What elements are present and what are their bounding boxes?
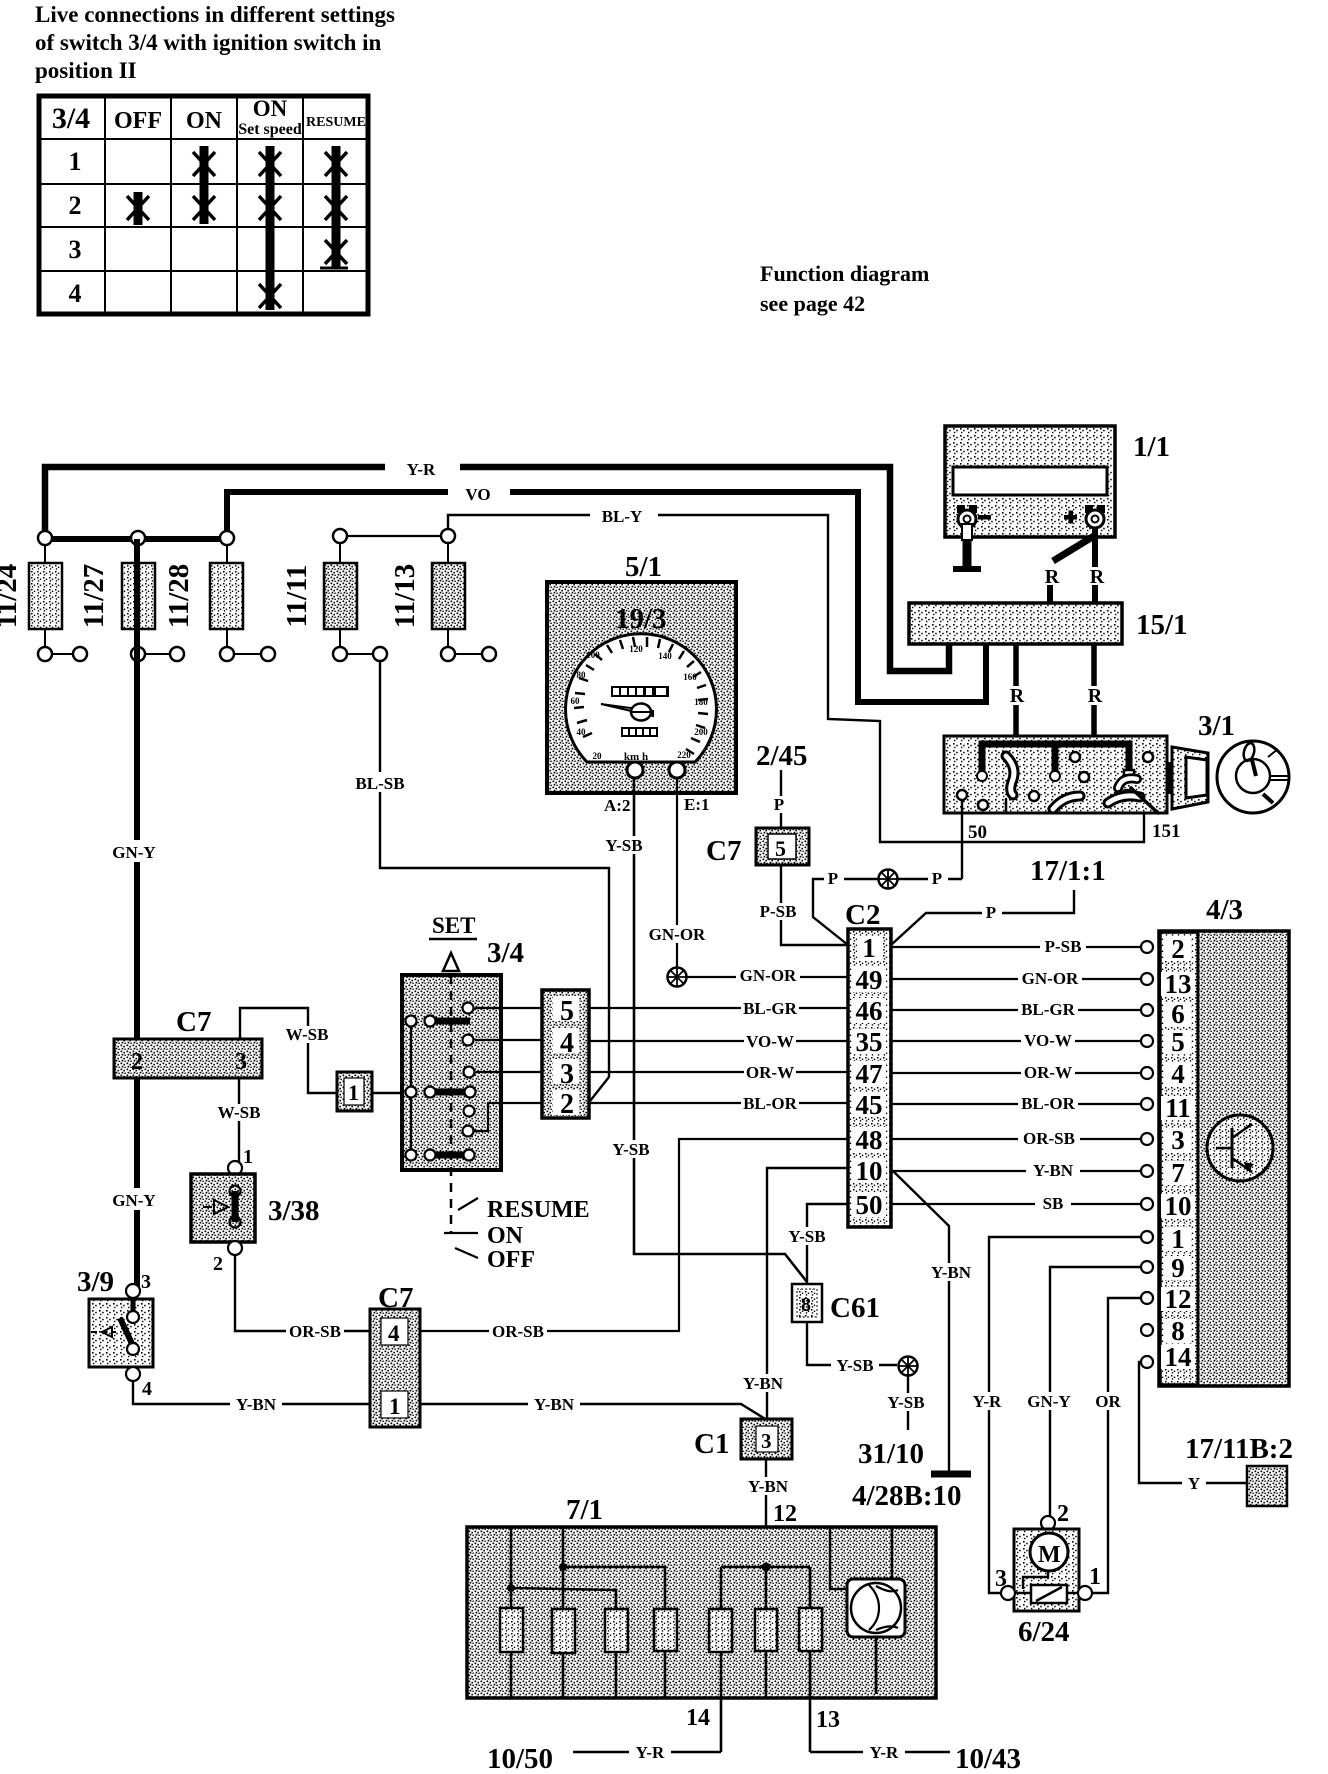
label Y — [1182, 1474, 1206, 1493]
svg-text:W-SB: W-SB — [286, 1025, 329, 1044]
fuse 11/13 — [389, 529, 496, 661]
wire battery plus to 15/1 right — [1092, 528, 1098, 603]
svg-text:11/24: 11/24 — [0, 564, 23, 628]
svg-text:2: 2 — [1171, 934, 1185, 964]
speedometer 19/3 dial — [566, 634, 717, 763]
label W-SB lower — [214, 1103, 264, 1122]
wire Y-SB from A:2 — [634, 778, 807, 1282]
svg-text:10: 10 — [1165, 1191, 1192, 1221]
svg-text:C7: C7 — [706, 835, 741, 867]
label GN-OR vertical wire — [646, 925, 708, 944]
svg-text:OR-SB: OR-SB — [289, 1322, 341, 1341]
svg-text:see page 42: see page 42 — [760, 291, 865, 316]
svg-text:1/1: 1/1 — [1133, 431, 1170, 463]
svg-text:SET: SET — [432, 913, 475, 938]
svg-text:E:1: E:1 — [684, 795, 710, 814]
label Y-BN left — [230, 1395, 282, 1414]
svg-text:Y-SB: Y-SB — [887, 1393, 924, 1412]
svg-text:OR-W: OR-W — [746, 1063, 794, 1082]
switch position table — [39, 96, 368, 314]
ignition switch 3/1 block — [944, 736, 1167, 813]
wire BL-GR row — [589, 1007, 848, 1009]
label R (left lower) — [1005, 685, 1029, 707]
svg-text:A:2: A:2 — [604, 796, 630, 815]
svg-text:BL-OR: BL-OR — [1021, 1094, 1076, 1113]
svg-text:3/4: 3/4 — [52, 102, 90, 135]
wire 14 out — [720, 1698, 723, 1752]
svg-text:C7: C7 — [176, 1006, 211, 1038]
svg-text:OR: OR — [1095, 1392, 1121, 1411]
key barrel 3/1 — [1167, 747, 1208, 809]
fuse box 15/1 — [909, 603, 1188, 644]
svg-text:C61: C61 — [830, 1292, 880, 1324]
battery plus terminal — [1064, 505, 1105, 528]
svg-text:48: 48 — [856, 1125, 883, 1155]
svg-text:4: 4 — [142, 1378, 152, 1400]
speedometer unit 5/1 — [547, 551, 736, 793]
wire Y-BN diagonal to ground — [893, 1171, 949, 1471]
svg-text:Y-SB: Y-SB — [612, 1140, 649, 1159]
svg-text:180: 180 — [694, 697, 708, 707]
svg-text:SB: SB — [1043, 1194, 1064, 1213]
connector 1 (inline) — [337, 1072, 372, 1111]
svg-text:GN-OR: GN-OR — [740, 966, 797, 985]
svg-text:2: 2 — [69, 191, 82, 220]
battery 1/1 — [945, 426, 1170, 537]
label W-SB upper — [282, 1025, 332, 1044]
svg-text:Y-BN: Y-BN — [748, 1477, 789, 1496]
ground battery — [953, 524, 981, 569]
svg-text:151: 151 — [1152, 821, 1181, 842]
svg-text:60: 60 — [571, 696, 581, 706]
svg-text:position II: position II — [35, 58, 137, 83]
transistor in 4/3 — [1207, 1115, 1273, 1181]
svg-text:GN-Y: GN-Y — [112, 1191, 155, 1210]
labels RESUME ON OFF — [444, 1197, 590, 1273]
svg-text:50: 50 — [856, 1190, 883, 1220]
wire P from 17/1:1 to C2 pin 1 — [891, 890, 1074, 945]
label P right — [928, 869, 948, 888]
svg-text:Y-R: Y-R — [407, 460, 436, 479]
label GN-OR horizontal — [736, 966, 800, 985]
svg-text:RESUME: RESUME — [306, 115, 366, 130]
svg-text:R: R — [1090, 566, 1105, 588]
fuse 11/24 — [0, 531, 87, 661]
ignition contacts — [957, 752, 1153, 810]
label GN-Y (6/24) — [1022, 1392, 1076, 1411]
label Y-BN (below C1) — [742, 1477, 794, 1496]
label P-SB — [755, 902, 801, 921]
wire to switch 3/4 — [372, 1092, 411, 1094]
svg-text:160: 160 — [683, 672, 697, 682]
diode unit 3/38 — [191, 1146, 320, 1275]
terminal E:1 — [669, 762, 685, 778]
svg-text:50: 50 — [968, 822, 987, 843]
connector 17/11B:2 — [1185, 1433, 1293, 1506]
wire BL-SB — [380, 661, 609, 1101]
svg-text:3: 3 — [560, 1059, 574, 1090]
svg-text:M: M — [1038, 1542, 1061, 1568]
wire 50 to BL-Y node — [961, 800, 963, 879]
label OR (6/24) — [1091, 1392, 1125, 1411]
svg-text:OR-W: OR-W — [1024, 1063, 1072, 1082]
row labels P-SB..SB — [1018, 937, 1086, 1213]
svg-text:P: P — [932, 869, 942, 888]
odometer lower — [621, 727, 658, 737]
wire OR-SB from 3/38 to C7 pin 4 — [235, 1255, 370, 1331]
wire 4/3 pin1 to Y-R — [989, 1237, 1140, 1593]
svg-text:140: 140 — [658, 651, 672, 661]
wire pin5 row — [475, 1007, 542, 1009]
wire 4/3 pin12 to OR — [1092, 1298, 1140, 1593]
title text — [35, 2, 395, 83]
7/1 resistors — [500, 1608, 822, 1653]
svg-text:1: 1 — [243, 1146, 253, 1168]
wires C2 to 4/3 rows — [891, 947, 1141, 1204]
svg-text:11/28: 11/28 — [163, 564, 195, 628]
wire R to ignition left — [1013, 644, 1019, 737]
svg-text:1: 1 — [69, 147, 82, 176]
svg-text:100: 100 — [586, 650, 600, 660]
svg-text:BL-OR: BL-OR — [743, 1094, 798, 1113]
wire Y-R to 10/43 — [810, 1751, 950, 1754]
svg-text:Set speed: Set speed — [238, 121, 302, 138]
svg-text:1: 1 — [348, 1080, 359, 1105]
label P left — [824, 869, 844, 888]
connector C2 — [845, 899, 891, 1227]
wire 13 out — [809, 1698, 812, 1752]
svg-text:80: 80 — [577, 670, 587, 680]
svg-text:1: 1 — [862, 933, 876, 963]
svg-text:VO: VO — [465, 485, 490, 504]
wire OR-SB from C7-4 to C2-48 — [420, 1139, 848, 1331]
wire Y-BN from C1 to 7/1 pin 12 — [765, 1459, 767, 1567]
svg-text:3: 3 — [69, 235, 82, 264]
label Y-SB upper — [600, 836, 648, 855]
svg-text:OR-SB: OR-SB — [492, 1322, 544, 1341]
svg-text:7/1: 7/1 — [566, 1494, 603, 1526]
svg-text:14: 14 — [686, 1705, 710, 1731]
label Y-R — [385, 455, 460, 479]
svg-text:Y: Y — [1188, 1474, 1200, 1493]
wire Y-BN from C2 pin 10 to C1 — [767, 1168, 848, 1420]
wire GN-OR to C2 pin 49 — [687, 976, 848, 978]
wire pin4 row — [475, 1039, 542, 1041]
wire Y-R top bus — [45, 467, 949, 671]
svg-text:Y-R: Y-R — [870, 1743, 899, 1762]
lamp GN-OR — [668, 968, 687, 987]
label Y-BN right — [528, 1395, 580, 1414]
connector C1 — [694, 1419, 792, 1460]
svg-text:10: 10 — [856, 1156, 883, 1186]
control unit 7/1 — [467, 1494, 936, 1698]
wire P-SB to C2 pin 1 — [781, 865, 848, 945]
svg-text:2: 2 — [213, 1253, 223, 1275]
svg-text:ON: ON — [487, 1223, 524, 1249]
svg-text:P-SB: P-SB — [1045, 937, 1082, 956]
svg-text:5: 5 — [1171, 1027, 1185, 1057]
connector C7 pin 5 — [706, 828, 809, 867]
4/3 pin numbers — [1161, 937, 1195, 1369]
label Y-BN (C1 wire) — [737, 1374, 789, 1393]
battery minus terminal — [957, 505, 991, 528]
wire 4/3 pin14 to 17/11B:2 — [1139, 1362, 1247, 1483]
control unit 4/3 — [1159, 894, 1289, 1386]
svg-text:11/11: 11/11 — [281, 565, 313, 628]
svg-text:46: 46 — [856, 996, 883, 1026]
svg-text:W-SB: W-SB — [218, 1103, 261, 1122]
wire BL-Y — [448, 515, 1144, 842]
svg-text:R: R — [1010, 685, 1025, 707]
wire Y-SB from C2 pin 50 — [807, 1204, 848, 1284]
svg-text:3/9: 3/9 — [77, 1266, 114, 1298]
svg-text:Y-R: Y-R — [636, 1743, 665, 1762]
svg-text:120: 120 — [629, 644, 643, 654]
svg-text:1: 1 — [1171, 1224, 1185, 1254]
label Y-SB (below C61) — [831, 1356, 879, 1375]
key head — [1217, 741, 1289, 813]
svg-text:4: 4 — [69, 279, 82, 308]
wire fuse top bus — [45, 536, 227, 542]
svg-text:3/4: 3/4 — [487, 937, 524, 969]
lamp P — [879, 870, 898, 889]
wire R left stub — [1047, 584, 1053, 603]
label Y-BN (ground wire) — [925, 1263, 977, 1282]
svg-text:3/1: 3/1 — [1198, 710, 1235, 742]
wire W-SB to 3/38 — [238, 1078, 240, 1164]
svg-text:C1: C1 — [694, 1428, 729, 1460]
terminal A:2 — [627, 762, 643, 778]
svg-text:OR-SB: OR-SB — [1023, 1129, 1075, 1148]
label OR-SB right — [489, 1322, 547, 1341]
svg-text:2: 2 — [131, 1049, 143, 1075]
wire Y-SB to 31/10 — [907, 1376, 909, 1430]
svg-text:Y-R: Y-R — [973, 1392, 1002, 1411]
svg-text:11: 11 — [1165, 1093, 1191, 1123]
svg-text:Y-BN: Y-BN — [534, 1395, 575, 1414]
label GN-Y lower — [108, 1188, 160, 1210]
switch 3/4 contacts — [406, 1003, 476, 1161]
svg-text:20: 20 — [593, 751, 603, 761]
svg-text:13: 13 — [1165, 969, 1192, 999]
label BL-Y — [590, 504, 658, 526]
svg-text:47: 47 — [856, 1059, 883, 1089]
svg-text:3: 3 — [995, 1566, 1007, 1592]
wire battery plus diagonal cable — [1053, 536, 1094, 561]
label Y-SB mid — [607, 1140, 655, 1159]
svg-text:4/3: 4/3 — [1206, 894, 1243, 926]
label VO — [448, 480, 510, 504]
svg-text:GN-OR: GN-OR — [649, 925, 706, 944]
svg-text:12: 12 — [1165, 1284, 1192, 1314]
svg-text:49: 49 — [856, 965, 883, 995]
svg-text:2: 2 — [1057, 1501, 1069, 1527]
svg-text:1: 1 — [1089, 1564, 1101, 1590]
svg-text:9: 9 — [1171, 1253, 1185, 1283]
svg-text:3: 3 — [141, 1271, 151, 1293]
svg-text:ON: ON — [253, 96, 288, 121]
wire pin2 step inside 3/4 — [474, 1103, 542, 1131]
svg-text:6: 6 — [1171, 999, 1185, 1029]
ignition contact traces — [1006, 756, 1158, 813]
svg-text:C2: C2 — [845, 899, 880, 931]
svg-text:1: 1 — [389, 1394, 401, 1419]
svg-text:12: 12 — [773, 1501, 797, 1527]
fuse 11/11 — [281, 529, 387, 661]
7/1 lamp — [847, 1579, 905, 1637]
wire pin3 row — [476, 1071, 542, 1073]
wire VO-W row — [589, 1040, 848, 1042]
svg-text:P-SB: P-SB — [760, 902, 797, 921]
svg-text:3/38: 3/38 — [268, 1195, 320, 1227]
servo motor 6/24 — [995, 1501, 1101, 1648]
svg-text:13: 13 — [816, 1707, 840, 1733]
needle — [601, 704, 653, 716]
wire OR-W row — [589, 1071, 848, 1073]
svg-text:BL-SB: BL-SB — [355, 774, 404, 793]
wire Y-R to 10/50 — [573, 1751, 721, 1754]
svg-text:5/1: 5/1 — [625, 551, 662, 583]
svg-text:5: 5 — [775, 836, 786, 861]
connector C7 pins 2,3 — [114, 1006, 262, 1078]
svg-text:4/28B:10: 4/28B:10 — [852, 1480, 962, 1512]
svg-text:10/43: 10/43 — [955, 1743, 1021, 1774]
svg-text:GN-Y: GN-Y — [112, 843, 155, 862]
svg-text:Y-SB: Y-SB — [605, 836, 642, 855]
wire GN-Y trunk — [134, 539, 140, 1288]
svg-text:2: 2 — [560, 1089, 574, 1120]
svg-text:ON: ON — [186, 108, 223, 134]
label Y-R (6/24) — [966, 1392, 1008, 1411]
ground 4/28B:10 — [931, 1471, 971, 1478]
svg-text:10/50: 10/50 — [487, 1743, 553, 1774]
svg-text:2/45: 2/45 — [756, 740, 808, 772]
svg-text:R: R — [1088, 685, 1103, 707]
svg-text:RESUME: RESUME — [487, 1197, 590, 1223]
switch 3/4 — [402, 913, 524, 1232]
svg-text:Y-BN: Y-BN — [236, 1395, 277, 1414]
wire P lamp row — [813, 879, 962, 945]
svg-text:OFF: OFF — [487, 1247, 535, 1273]
7/1 internal wires — [511, 1527, 892, 1698]
svg-text:15/1: 15/1 — [1136, 609, 1188, 641]
label GN-Y upper — [108, 840, 160, 862]
svg-text:35: 35 — [856, 1027, 883, 1057]
svg-text:11/27: 11/27 — [78, 564, 110, 628]
svg-text:Y-BN: Y-BN — [931, 1263, 972, 1282]
wire 4/3 pin9 to GN-Y — [1050, 1267, 1140, 1516]
svg-text:P: P — [986, 903, 996, 922]
svg-text:VO-W: VO-W — [1024, 1031, 1072, 1050]
svg-text:220: 220 — [677, 750, 691, 760]
svg-text:14: 14 — [1165, 1342, 1192, 1372]
svg-text:Y-SB: Y-SB — [788, 1227, 825, 1246]
svg-text:GN-OR: GN-OR — [1022, 969, 1079, 988]
svg-text:4: 4 — [1171, 1059, 1185, 1089]
fuse 11/28 — [163, 531, 275, 661]
svg-text:17/1:1: 17/1:1 — [1030, 855, 1106, 887]
wire Y-SB below C61 — [807, 1322, 897, 1365]
wire W-SB upper loop — [240, 1008, 337, 1093]
svg-text:6/24: 6/24 — [1018, 1616, 1070, 1648]
fuse 11/27 — [78, 531, 184, 661]
label Y-SB (pin50) — [783, 1227, 831, 1246]
wire R to ignition right — [1091, 644, 1097, 737]
wire Y-BN from 3/9 — [133, 1381, 767, 1420]
label OR-SB left — [286, 1322, 344, 1341]
svg-text:4: 4 — [560, 1028, 574, 1059]
svg-text:3: 3 — [235, 1049, 247, 1075]
svg-text:5: 5 — [560, 996, 574, 1027]
wire BL-OR row — [589, 1102, 848, 1104]
connector 5/4/3/2 — [542, 990, 589, 1120]
svg-text:8: 8 — [801, 1294, 811, 1316]
label R (left upper) — [1040, 566, 1064, 588]
wire GN-OR from E:1 — [676, 778, 678, 968]
label Y-SB (bottom) — [882, 1393, 930, 1412]
switch 3/9 — [77, 1266, 153, 1400]
function diagram note — [760, 261, 929, 316]
svg-text:P: P — [828, 869, 838, 888]
svg-text:200: 200 — [694, 727, 708, 737]
wire P from 2/45 — [780, 770, 782, 828]
svg-text:Y-BN: Y-BN — [743, 1374, 784, 1393]
svg-text:Y-SB: Y-SB — [836, 1356, 873, 1375]
svg-text:19/3: 19/3 — [615, 603, 667, 635]
label P — [770, 795, 790, 814]
ignition internal bus — [982, 744, 1129, 771]
svg-text:45: 45 — [856, 1090, 883, 1120]
lamp Y-SB — [899, 1357, 918, 1376]
odometer upper — [611, 686, 669, 697]
label BL-SB — [350, 772, 410, 793]
4/3 pin circles — [1141, 941, 1153, 1368]
svg-text:GN-Y: GN-Y — [1027, 1392, 1070, 1411]
label R (right upper) — [1085, 566, 1109, 588]
svg-text:40: 40 — [577, 727, 587, 737]
wire 11/11 to 11/13 top link — [340, 535, 448, 537]
svg-text:OFF: OFF — [114, 108, 162, 134]
label R (right lower) — [1083, 685, 1107, 707]
svg-text:of switch 3/4 with ignition sw: of switch 3/4 with ignition switch in — [35, 30, 382, 55]
svg-text:Live connections in different: Live connections in different settings — [35, 2, 395, 27]
svg-text:BL-GR: BL-GR — [1021, 1000, 1076, 1019]
wire VO bus — [227, 492, 986, 702]
svg-text:BL-Y: BL-Y — [602, 507, 643, 526]
label P on 17/1:1 wire — [982, 903, 1002, 922]
connector C7 pins 4,1 — [370, 1282, 420, 1427]
svg-text:Function diagram: Function diagram — [760, 261, 929, 286]
svg-text:3: 3 — [1171, 1125, 1185, 1155]
svg-text:31/10: 31/10 — [858, 1438, 924, 1470]
svg-text:7: 7 — [1171, 1158, 1185, 1188]
connector C61 — [792, 1284, 880, 1324]
svg-text:Y-BN: Y-BN — [1033, 1161, 1074, 1180]
svg-text:VO-W: VO-W — [746, 1032, 794, 1051]
svg-text:3: 3 — [761, 1429, 772, 1453]
svg-text:R: R — [1045, 566, 1060, 588]
svg-text:BL-GR: BL-GR — [743, 999, 798, 1018]
svg-text:17/11B:2: 17/11B:2 — [1185, 1433, 1293, 1465]
svg-text:4: 4 — [388, 1321, 400, 1346]
table contact bars and X marks — [127, 146, 348, 310]
svg-text:11/13: 11/13 — [389, 564, 421, 628]
svg-text:P: P — [774, 795, 784, 814]
